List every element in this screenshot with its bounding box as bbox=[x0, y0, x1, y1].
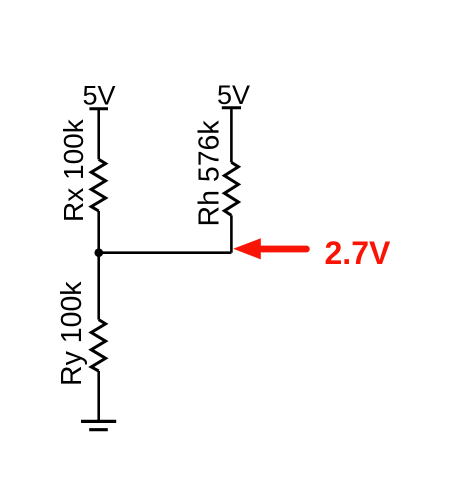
svg-text:Ry 100k: Ry 100k bbox=[56, 281, 88, 386]
svg-text:5V: 5V bbox=[82, 81, 115, 111]
svg-text:5V: 5V bbox=[217, 80, 250, 110]
svg-text:Rh 576k: Rh 576k bbox=[194, 120, 226, 227]
svg-text:2.7V: 2.7V bbox=[325, 235, 391, 271]
svg-text:Rx 100k: Rx 100k bbox=[58, 118, 89, 222]
